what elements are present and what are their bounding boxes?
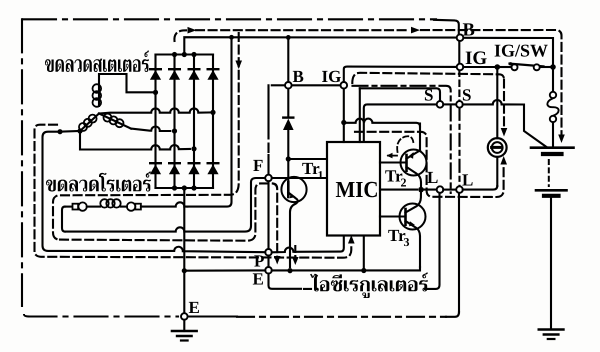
brush/slip-ring right (127, 202, 135, 210)
label rotor coil (Thai) (46, 172, 151, 192)
transistor Tr3 (380, 190, 426, 267)
diode D2 (top, positive) (169, 68, 180, 70)
alternator case border (dash-dot) (22, 19, 436, 306)
charge lamp (488, 138, 507, 157)
wire: B+ bus from bridge to battery (184, 37, 457, 54)
wire: MIC ground leg (363, 236, 365, 271)
svg-text:2: 2 (401, 176, 407, 190)
wire: S to battery positive (463, 100, 547, 147)
node: Tr1 supply (286, 156, 291, 161)
diode (B line, in regulator) (283, 116, 293, 118)
svg-text:E: E (189, 298, 200, 317)
rotor field winding circuit (62, 207, 65, 232)
wire: left phase to diode column 3 (80, 131, 190, 150)
rectifier bridge bottom rail (156, 187, 214, 189)
wire: lamp feed from switch (496, 67, 498, 138)
ground symbol (battery) (539, 328, 564, 331)
brush/slip-ring left (73, 204, 79, 210)
battery (531, 148, 574, 196)
wire: ground bus from bridge bottom (183, 188, 185, 313)
wire: connector column B to IG (458, 41, 460, 64)
svg-text:IG: IG (465, 48, 487, 69)
svg-text:B: B (463, 20, 475, 40)
wire: P sense from stator phase (43, 132, 266, 253)
flow path: lamp current from L (dashed) (355, 132, 504, 197)
diode D6 (bottom, negative) (169, 162, 180, 164)
terminal S (connector) (456, 101, 463, 108)
svg-text:IG: IG (322, 67, 342, 86)
wire: L to lamp (463, 186, 498, 190)
wire: rotor bottom lead to F (65, 178, 265, 232)
terminal E (body connector) (181, 313, 188, 320)
label IC regulator (Thai) (310, 273, 428, 299)
rotor coil loops (100, 199, 108, 207)
wire: B+ to rotor slip ring (187, 37, 231, 206)
terminal L (connector) (456, 186, 463, 193)
terminal B (regulator) (285, 82, 292, 89)
svg-text:S: S (424, 86, 433, 105)
wire: rotor top lead hops ground bus (141, 202, 187, 206)
wire: right phase to diode column 2 (131, 126, 170, 131)
wire: body line to L connector (458, 193, 460, 313)
flow path: rotor loop return (dashed) (60, 183, 277, 257)
flow arrow: P sense branch (dashed) (294, 246, 296, 258)
regulator boundary (dashed) (352, 73, 504, 83)
wire: E ground line (184, 269, 265, 271)
wire: left phase to P-wrap node (60, 130, 80, 133)
switch IG/SW (512, 64, 518, 70)
wire: Tr2 emitter supply (419, 124, 421, 151)
terminal IG (connector) (457, 64, 464, 71)
flow path: outer stator loop (dashed) (35, 125, 352, 258)
diode D3 (top, positive) (189, 68, 200, 70)
wire: L line from MIC (380, 189, 417, 191)
svg-text:3: 3 (404, 235, 410, 249)
bottom body line E (dash-dot left portion) (24, 315, 178, 317)
wire: S sense line (364, 104, 437, 142)
diode column 4 wire (212, 55, 214, 189)
wire: neutral phase to diode column 4 (99, 108, 213, 113)
wire: IG connector to switch (463, 66, 494, 68)
wire: regulator edge F to P (267, 181, 269, 249)
diode D4 (top, positive) (208, 68, 219, 70)
terminal E (regulator) (265, 267, 272, 274)
terminal F (265, 175, 272, 182)
transistor Tr2 (380, 150, 427, 190)
terminal IG (regulator) (341, 82, 348, 89)
diode D1 (top, positive) (150, 68, 161, 70)
node: left phase junction (77, 128, 82, 133)
wire: IG terminal into MIC (343, 89, 345, 142)
svg-text:IG/SW: IG/SW (494, 41, 548, 61)
wire: connector column IG to S (dashed) (458, 71, 460, 102)
diode column 1 wire (154, 55, 156, 189)
stator star point to left coil (80, 114, 99, 132)
flow path: Tr2 base curl (dashed) (397, 136, 413, 152)
terminal L (regulator) (437, 186, 444, 193)
svg-text:L: L (427, 168, 438, 187)
wire: IG node across to Tr2 supply (344, 119, 420, 127)
node: column1 phase tap (153, 90, 158, 95)
svg-text:L: L (462, 171, 473, 190)
fusible link (550, 92, 556, 98)
wire: regulator edge P to E (267, 256, 269, 267)
flow path: lamp current down (dashed) (503, 80, 505, 128)
wire: B bus drop to regulator B terminal (287, 37, 289, 82)
diode D7 (bottom, negative) (189, 162, 200, 164)
transistor Tr1 (272, 177, 327, 267)
svg-text:1: 1 (318, 168, 324, 182)
wire: MIC top feed (359, 88, 361, 142)
diode D5 (bottom, negative) (150, 162, 161, 164)
stator top coil loops (93, 84, 102, 93)
node: lamp tap (495, 64, 501, 70)
label stator coil (Thai) (45, 51, 149, 73)
svg-text:P: P (254, 252, 264, 271)
ground symbol (alternator body) (183, 320, 185, 331)
svg-text:F: F (253, 156, 263, 175)
svg-text:B: B (293, 67, 304, 86)
wire: switch to fusible link (552, 67, 554, 92)
svg-text:MIC: MIC (336, 177, 379, 202)
flow path: charging current B+ to battery (dashed) (174, 30, 561, 134)
wire: supply to MIC (288, 158, 327, 160)
arrow: MIC feedback (388, 155, 397, 157)
diode D8 (bottom, negative) (208, 162, 219, 164)
terminal B (connector) (457, 34, 464, 41)
stator star point to right coil (99, 114, 131, 129)
wire: IG terminal up to IG switch (344, 67, 457, 82)
regulator edge: top (B, IG terminals) (272, 84, 285, 86)
diode column 2 wire (173, 55, 175, 189)
wire: battery negative down (550, 198, 552, 330)
stator winding (3-phase star) (99, 74, 152, 106)
wire: E terminal return to L (269, 274, 302, 289)
svg-text:S: S (462, 86, 471, 105)
terminal P (265, 249, 272, 256)
rectifier bridge top rail (156, 53, 214, 55)
wire: connector column S to L (dash-dot) (458, 108, 460, 186)
diode column 3 wire (193, 55, 195, 189)
terminal S (regulator) (437, 101, 444, 108)
svg-text:E: E (253, 270, 264, 289)
wire: case top line drops into B connector (434, 20, 459, 35)
op-amp/regulator IC MIC (327, 142, 380, 236)
connector boundary (dash-dot) (353, 86, 451, 193)
flow path: field current down to rotor (dashed) (53, 33, 239, 240)
